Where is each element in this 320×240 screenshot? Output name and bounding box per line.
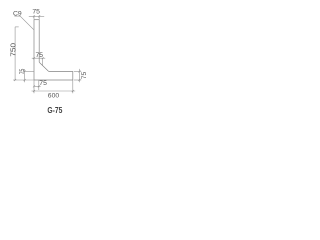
- svg-text:75: 75: [32, 8, 40, 15]
- right dim 75: tick bottom: [78, 79, 80, 81]
- svg-text:75: 75: [19, 69, 26, 75]
- left dim 750: dimension line: [14, 27, 16, 80]
- svg-text:75: 75: [81, 72, 88, 80]
- inner dim 75: tick left: [33, 57, 35, 59]
- inner dim 75: dimension line: [32, 57, 45, 59]
- haunch fillet diagonal: [39, 62, 48, 71]
- C9 leader line: [20, 16, 33, 30]
- svg-text:600: 600: [48, 93, 60, 100]
- base slab top edge: [49, 70, 73, 72]
- bottom wall-thickness dim 75: tick left: [33, 85, 35, 87]
- inner dim 75: tick right: [42, 57, 44, 59]
- svg-text:75: 75: [36, 52, 44, 59]
- base slab right end edge: [72, 71, 74, 80]
- right dim 75: extension line bottom: [74, 79, 81, 81]
- bottom dim 600: tick left: [33, 90, 35, 92]
- left small dim 75: extension line: [23, 70, 34, 72]
- C9 leader shelf: [14, 15, 20, 17]
- inner dim 75: extension line down to fillet: [42, 58, 44, 65]
- bottom dim 600: extension line left: [33, 80, 35, 93]
- bottom dim 600: extension line right: [72, 80, 74, 93]
- wall outer face (left): [33, 20, 35, 80]
- bottom wall-thickness dim 75: dimension line: [34, 85, 41, 87]
- left small dim 75: tick top: [24, 70, 26, 72]
- wall top edge: [34, 19, 39, 21]
- svg-text:75: 75: [39, 80, 47, 87]
- bottom wall-thickness dim 75: extension line down: [38, 80, 40, 90]
- wall inner face (right): [38, 20, 40, 63]
- right dim 75: tick top: [78, 70, 80, 72]
- background: [0, 0, 91, 120]
- svg-text:G-75: G-75: [47, 105, 62, 115]
- left dim 750: small horizontal mark: [15, 26, 19, 28]
- left dim 750: bottom extension line: [13, 79, 34, 81]
- left small dim 75: tick bottom: [24, 79, 26, 81]
- bottom wall-thickness dim 75: tick right: [38, 85, 40, 87]
- top dim 75: extension lines up from wall faces: [33, 15, 35, 19]
- top dim 75: tick right: [38, 15, 40, 17]
- bottom dim 600: tick right: [72, 90, 74, 92]
- svg-text:750: 750: [10, 43, 17, 57]
- svg-text:C9: C9: [13, 10, 22, 17]
- base slab bottom edge: [34, 79, 73, 81]
- right dim 75: extension line top: [74, 70, 81, 72]
- right dim 75: dimension line: [78, 69, 80, 82]
- left small dim 75: dimension line: [24, 69, 26, 82]
- top dim 75: tick left: [33, 15, 35, 17]
- top dim 75: dimension line: [29, 15, 44, 17]
- bottom dim 600: dimension line: [32, 90, 76, 92]
- left dim 750: bottom tick: [14, 79, 16, 81]
